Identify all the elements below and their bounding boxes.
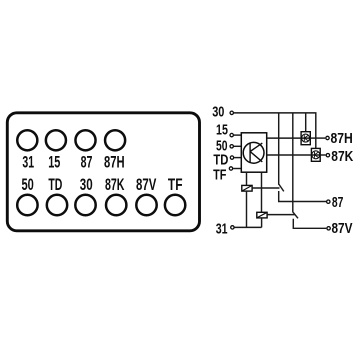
wire branch to relay K1 (305, 113, 307, 132)
wire 15 (234, 134, 242, 136)
wire K1 to 87H (310, 137, 325, 139)
wire branch to switch 1 (278, 113, 280, 185)
relay K1 circle (302, 134, 310, 142)
wire K2 to 87K (320, 154, 325, 156)
svg-text:87V: 87V (332, 220, 353, 237)
wire U1 to relay K2 (267, 154, 320, 156)
svg-text:TF: TF (168, 175, 183, 194)
svg-text:87: 87 (332, 194, 344, 211)
switch 2 blade (293, 212, 298, 218)
svg-text:87V: 87V (136, 175, 157, 194)
control unit box U1 (241, 133, 266, 172)
svg-text:30: 30 (212, 103, 224, 120)
socket pin circle 31 (17, 130, 37, 150)
svg-text:87K: 87K (105, 175, 125, 194)
terminal 15 (230, 133, 233, 136)
svg-text:15: 15 (216, 122, 228, 139)
terminal 87K (326, 154, 329, 157)
socket pin circle 87H (105, 130, 125, 150)
wire coil L2 to 31 (261, 218, 263, 228)
control unit K glyph (250, 143, 262, 163)
wire U1 to relay K1 (267, 137, 311, 139)
wire TF (233, 168, 241, 170)
svg-text:TF: TF (213, 167, 226, 184)
terminal 30 (230, 111, 233, 114)
terminal 87V (327, 227, 330, 230)
coil L2 box (257, 212, 267, 218)
wire coil L2 to switch 2 (267, 214, 295, 216)
svg-text:87K: 87K (331, 148, 353, 165)
socket pin circle 30 (75, 195, 95, 215)
svg-text:50: 50 (21, 175, 33, 194)
svg-text:87: 87 (81, 152, 93, 171)
wire 31 (235, 226, 262, 228)
wire 30 bus (234, 113, 316, 148)
coil L1 box (242, 185, 252, 191)
terminal TF (229, 167, 232, 170)
terminal 87H (326, 136, 329, 139)
relay K1 K glyph (304, 135, 308, 141)
switch 1 blade (279, 184, 284, 191)
relay K2 circle (312, 151, 320, 159)
svg-text:15: 15 (48, 152, 60, 171)
socket pin circle 87 (75, 130, 95, 150)
wire U1 leg to coil L1 (246, 172, 248, 185)
relay K2 box (311, 148, 320, 161)
wire U1 leg to coil L2 (261, 172, 263, 212)
wire TD (234, 157, 241, 159)
relay K1 box (301, 132, 310, 145)
svg-text:TD: TD (48, 175, 62, 194)
svg-text:31: 31 (22, 152, 34, 171)
wire coil L1 to 31 (246, 191, 248, 227)
wire 50 (234, 145, 242, 147)
svg-text:30: 30 (80, 175, 93, 194)
terminal 31 (231, 226, 234, 229)
relay socket outline (7, 113, 199, 231)
relay K2 K glyph (315, 152, 319, 158)
wire switch 1 to 87 (279, 191, 326, 202)
coil L1 diagonal (242, 185, 252, 191)
socket pin circle 87K (106, 195, 126, 215)
socket pin circle 50 (17, 195, 37, 215)
terminal 50 (230, 145, 233, 148)
terminal 87 (327, 200, 330, 203)
wire switch 2 to 87V (293, 219, 326, 229)
svg-text:87H: 87H (331, 130, 353, 147)
wire coil L1 to switch 1 (252, 187, 279, 189)
control unit circle (243, 142, 264, 163)
svg-text:87H: 87H (104, 152, 125, 171)
socket pin circle 15 (46, 130, 66, 150)
socket pin circle TF (165, 195, 185, 215)
coil L2 diagonal (257, 212, 267, 218)
socket pin circle TD (47, 195, 67, 215)
terminal TD (230, 156, 233, 159)
wire branch to switch 2 (292, 113, 294, 212)
socket pin circle 87V (136, 195, 156, 215)
svg-text:31: 31 (216, 221, 228, 238)
